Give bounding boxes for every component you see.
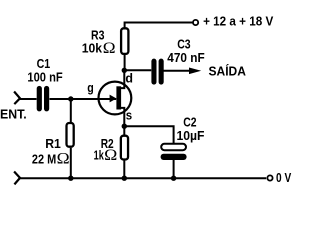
svg-text:10µF: 10µF (177, 128, 205, 143)
svg-text:g: g (87, 81, 94, 95)
svg-text:s: s (126, 109, 132, 123)
svg-text:Ω: Ω (103, 40, 116, 57)
svg-text:10k: 10k (82, 41, 103, 56)
svg-text:100 nF: 100 nF (27, 70, 62, 85)
svg-text:470 nF: 470 nF (167, 50, 204, 65)
svg-text:+ 12 a + 18 V: + 12 a + 18 V (203, 13, 273, 28)
svg-text:ENT.: ENT. (0, 106, 27, 121)
svg-text:Ω: Ω (104, 147, 117, 164)
svg-text:R1: R1 (45, 136, 61, 151)
svg-text:1k: 1k (94, 148, 105, 163)
svg-text:Ω: Ω (57, 151, 70, 168)
svg-text:d: d (125, 72, 133, 86)
svg-text:SAÍDA: SAÍDA (209, 64, 247, 79)
svg-text:0 V: 0 V (276, 170, 291, 185)
svg-text:22 M: 22 M (32, 151, 56, 166)
